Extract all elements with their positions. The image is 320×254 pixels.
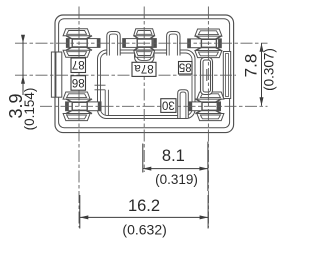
relay body outer outline bbox=[55, 15, 234, 133]
centerline top pin row bbox=[15, 42, 268, 44]
svg-text:8.1: 8.1 bbox=[162, 147, 185, 165]
svg-text:(0.154): (0.154) bbox=[22, 88, 37, 131]
relay body inner outline bbox=[59, 19, 230, 128]
inner wall ring bbox=[98, 50, 196, 119]
terminal pin 86 (bottom-left) bbox=[63, 92, 101, 121]
svg-text:16.2: 16.2 bbox=[128, 197, 160, 215]
svg-text:(0.632): (0.632) bbox=[122, 222, 166, 238]
pin label 30 bbox=[161, 98, 176, 112]
centerline bottom pin row bbox=[40, 105, 268, 107]
terminal pin 30 (bottom-right) bbox=[189, 92, 224, 121]
left side tab bbox=[51, 52, 55, 97]
pin label 85 bbox=[179, 61, 193, 74]
wall pocket under middle pin bbox=[135, 50, 155, 63]
dimension 3.9 line bbox=[22, 35, 24, 95]
svg-text:7.8: 7.8 bbox=[242, 54, 261, 78]
wall step bottom-left bbox=[95, 84, 106, 86]
svg-text:(0.319): (0.319) bbox=[155, 172, 198, 187]
wall hook right bbox=[167, 32, 180, 56]
dimension 16.2 bbox=[79, 195, 81, 229]
svg-text:(0.307): (0.307) bbox=[262, 48, 277, 91]
pin label 87a bbox=[132, 62, 156, 76]
terminal pin 87a (top-middle) bbox=[123, 29, 157, 58]
dimension 7.8 line bbox=[261, 43, 263, 106]
centerline middle pin column bbox=[143, 7, 145, 173]
right side tab bbox=[223, 52, 230, 99]
wall hook left bbox=[107, 32, 120, 56]
wall hook bottom (between 30 and pin) bbox=[178, 90, 189, 118]
svg-text:87a: 87a bbox=[134, 62, 154, 74]
svg-text:30: 30 bbox=[162, 98, 175, 110]
svg-text:87: 87 bbox=[72, 58, 85, 70]
terminal pin 85 (top-right) bbox=[188, 29, 222, 58]
pin label 87 bbox=[71, 58, 86, 73]
terminal pin 87 (top-left) bbox=[63, 29, 100, 58]
centerline left pin column bbox=[78, 7, 80, 228]
dimension 8.1 bbox=[142, 144, 144, 173]
centerline right pin column bbox=[207, 7, 209, 228]
centerline horizontal middle bbox=[15, 74, 236, 76]
svg-text:86: 86 bbox=[72, 76, 85, 88]
pin label 86 bbox=[71, 76, 86, 91]
svg-text:85: 85 bbox=[179, 61, 192, 73]
contact slot right bbox=[201, 58, 213, 95]
